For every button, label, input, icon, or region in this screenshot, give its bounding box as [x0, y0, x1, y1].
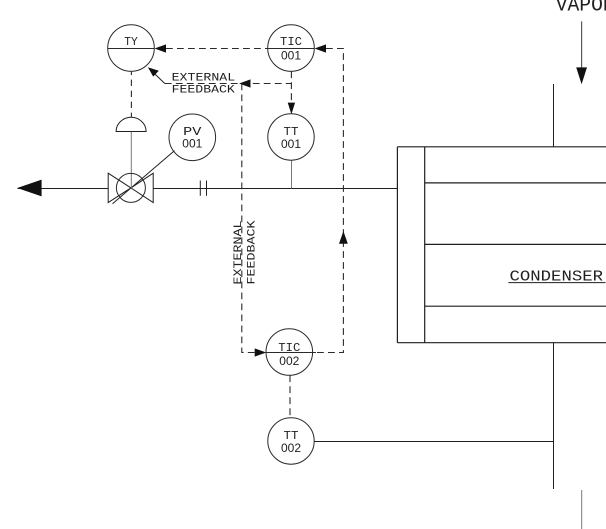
svg-text:FEEDBACK: FEEDBACK: [246, 220, 258, 284]
svg-text:TIC: TIC: [280, 35, 302, 49]
svg-text:001: 001: [182, 137, 202, 151]
svg-text:EXTERNAL: EXTERNAL: [233, 221, 245, 285]
svg-text:TY: TY: [124, 35, 138, 49]
svg-text:001: 001: [281, 49, 301, 63]
svg-text:VAPOR: VAPOR: [556, 0, 606, 17]
svg-text:EXTERNAL: EXTERNAL: [172, 72, 236, 84]
svg-text:002: 002: [279, 354, 299, 368]
svg-text:FEEDBACK: FEEDBACK: [172, 85, 236, 97]
svg-text:CONDENSER: CONDENSER: [510, 269, 604, 285]
svg-text:001: 001: [281, 137, 301, 151]
svg-text:002: 002: [281, 441, 301, 455]
svg-text:TIC: TIC: [278, 341, 300, 355]
